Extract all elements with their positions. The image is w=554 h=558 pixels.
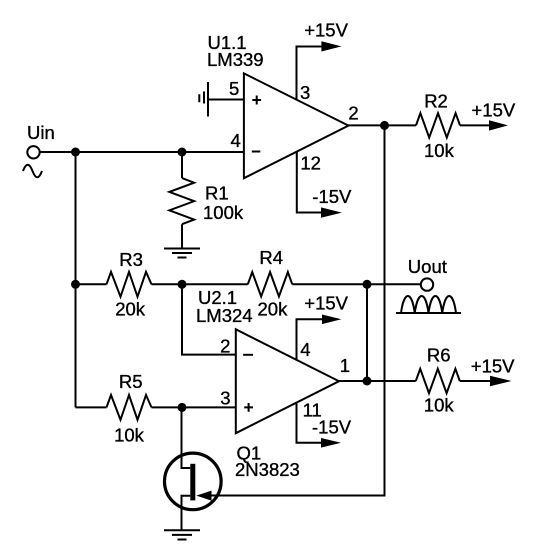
svg-text:+15V: +15V [472, 100, 516, 121]
wire long vertical from U1.1 output down to Q1 gate [211, 125, 385, 495]
resistor R5 [107, 395, 152, 420]
sine wave symbol [23, 165, 42, 178]
svg-text:10k: 10k [114, 425, 145, 446]
wire R3 left lead [76, 283, 107, 285]
transistor Q1 (JFET) circle [165, 453, 222, 510]
svg-text:2: 2 [348, 103, 358, 124]
svg-text:-15V: -15V [312, 186, 352, 207]
resistor R2 [416, 113, 460, 137]
svg-text:R3: R3 [119, 249, 143, 270]
plus symbol inside U1.1 [252, 96, 261, 105]
svg-text:2: 2 [220, 336, 230, 357]
op-amp U1.1 triangle [244, 73, 349, 178]
op-amp U2.1 triangle [236, 329, 339, 433]
power arrow -15V (U2.1 pin 11) [321, 438, 341, 448]
svg-text:1: 1 [340, 355, 350, 376]
wire vertical from Uout node down to U2.1 output [366, 284, 368, 381]
power arrow +15V (R2) [489, 120, 508, 130]
wire R1 bottom lead [181, 224, 183, 248]
power arrow +15V (R6) [490, 376, 512, 386]
svg-text:12: 12 [300, 153, 321, 174]
svg-text:R1: R1 [205, 183, 229, 204]
Q1 channel bar [190, 464, 195, 501]
wire U1.1 pin 12 to -15V [297, 151, 321, 213]
node junction dot at Uout branch [363, 280, 372, 289]
power arrow -15V (U1.1 pin 12) [321, 207, 342, 217]
svg-text:Uin: Uin [27, 122, 55, 143]
wire R6 to +15V arrow [460, 380, 491, 382]
svg-text:10k: 10k [424, 140, 455, 161]
node junction dot R5 / Q1 drain branch [178, 403, 187, 412]
wire R4 to Uout [292, 283, 421, 285]
svg-text:100k: 100k [203, 202, 244, 223]
resistor R1 [169, 178, 194, 224]
svg-text:+15V: +15V [304, 292, 348, 313]
svg-text:4: 4 [300, 339, 310, 360]
svg-text:-15V: -15V [312, 416, 352, 437]
node junction dot at R1 branch [178, 148, 187, 157]
Q1 source lead [182, 496, 191, 530]
Q1 gate arrowhead [196, 491, 211, 501]
node junction dot at R3 branch [71, 280, 80, 289]
svg-text:20k: 20k [115, 299, 146, 320]
svg-text:20k: 20k [258, 299, 289, 320]
ground below R1 [164, 249, 200, 258]
svg-text:5: 5 [229, 78, 239, 99]
svg-text:3: 3 [300, 82, 310, 103]
power arrow +15V (U1.1 pin 3) [321, 41, 341, 51]
wire R5 left lead [76, 406, 107, 408]
wire U2.1 output to R6 [339, 380, 416, 382]
svg-text:LM324: LM324 [196, 305, 253, 326]
wire U1.1 pin 3 to +15V [297, 47, 324, 101]
svg-text:4: 4 [231, 130, 241, 151]
svg-text:2N3823: 2N3823 [235, 459, 300, 480]
wire R2 to +15V arrow [460, 124, 490, 126]
ground sideways at U1.1 noninverting input [199, 82, 208, 117]
svg-text:+15V: +15V [471, 356, 515, 377]
svg-text:Uout: Uout [408, 256, 447, 277]
node junction dot U1.1 output [380, 121, 389, 130]
svg-text:10k: 10k [424, 395, 455, 416]
svg-text:R4: R4 [259, 247, 283, 268]
svg-text:R6: R6 [427, 345, 451, 366]
node junction dot at Uin branch [71, 148, 80, 157]
triangle wave symbol under Uout [396, 312, 461, 314]
node Uin terminal circle [27, 146, 39, 158]
node junction dot R3/R4 and pin2 branch [178, 280, 187, 289]
power arrow +15V (U2.1 pin 4) [322, 315, 341, 325]
wire U2.1 pin 2 lead [182, 284, 236, 354]
svg-text:+15V: +15V [304, 20, 348, 41]
wire U2.1 pin 4 to +15V [297, 319, 323, 360]
svg-text:3: 3 [220, 387, 230, 408]
resistor R4 [248, 272, 292, 296]
svg-text:R2: R2 [424, 90, 448, 111]
svg-text:LM339: LM339 [207, 49, 264, 70]
wire U1.1 output to R2 [349, 124, 417, 126]
svg-text:R5: R5 [119, 371, 143, 392]
resistor R3 [107, 272, 152, 297]
plus symbol inside U2.1 [244, 403, 253, 412]
wire R5 to U2.1 pin 3 [152, 406, 236, 408]
wire R3 to R4 [152, 283, 248, 285]
wire Uin to U1.1 inverting input [40, 151, 244, 153]
ground below Q1 [164, 530, 200, 539]
node Uout terminal circle [421, 278, 433, 290]
wire to U1.1 pin 5 [208, 99, 244, 101]
resistor R6 [416, 369, 460, 393]
minus symbol inside U2.1 [243, 354, 253, 356]
Q1 drain lead [182, 407, 191, 468]
minus symbol inside U1.1 [252, 151, 260, 153]
wire U2.1 pin 11 to -15V [297, 402, 322, 443]
wire left rail down to R5 [75, 152, 77, 407]
wire R1 top lead [181, 152, 183, 178]
node junction dot U2.1 output [363, 377, 372, 386]
